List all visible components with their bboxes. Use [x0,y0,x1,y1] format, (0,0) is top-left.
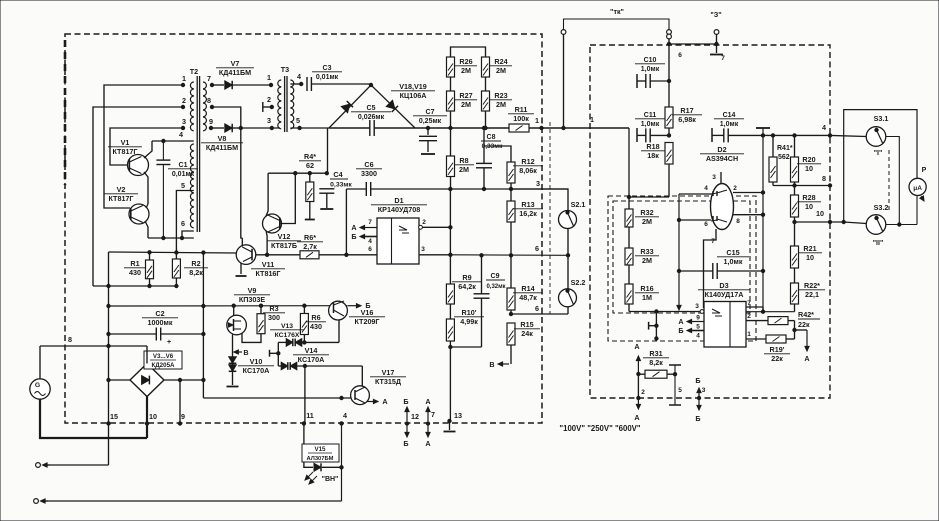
label C4 [330,170,352,189]
capacitor C5 [370,120,374,136]
terminal V arrow lower [489,360,509,369]
label R20 [797,155,821,173]
svg-text:R21: R21 [803,244,816,253]
label C1 [168,162,198,178]
dot T3 pin3 [270,126,273,129]
switch S2.1 [559,211,577,229]
wire y197 [629,196,669,198]
dot node1 left [540,126,543,129]
resistor R18 [665,143,673,198]
svg-text:6: 6 [535,244,539,253]
dot V12 emitter junction [265,253,268,256]
wire T3 pin4 [290,83,301,85]
resistor R2 [172,259,180,286]
svg-text:430: 430 [310,322,322,331]
label S2.1 [571,200,586,209]
svg-text:9: 9 [696,315,700,322]
dot V8 line crossing [239,126,242,129]
svg-text:R2: R2 [191,259,200,268]
svg-text:4: 4 [297,72,301,81]
dot R14 bottom [509,312,512,315]
terminal input lower [34,499,342,504]
right dashed enclosure box [590,45,830,398]
dot T2 pin9 [209,126,212,129]
svg-text:3: 3 [712,174,716,181]
transformer T3 [278,65,294,132]
dot stub [277,352,280,355]
wire T2 pin5 [176,191,193,260]
dot T3 pin5 [298,126,301,129]
bridge rectifier V3-V6 KD205A [130,364,164,397]
svg-text:48,7к: 48,7к [519,293,537,302]
svg-text:0,32мк: 0,32мк [486,284,505,290]
label R27 [455,91,477,109]
wire V12 base [280,173,295,223]
resistor R20 [791,134,799,186]
label C3 [312,65,342,81]
capacitor C11 [637,128,669,142]
node7 A arrows [425,397,430,448]
dot S2 mid [566,254,569,257]
svg-text:μА: μА [913,185,922,192]
svg-text:10: 10 [149,412,157,421]
dot V14 node [303,364,306,367]
svg-text:AS394СН: AS394СН [706,154,738,163]
G bottom loop [40,399,147,438]
dot R2 bottom [175,284,178,287]
svg-text:3: 3 [182,117,186,126]
svg-text:КС176Х: КС176Х [275,332,300,339]
node8 row [773,174,832,187]
D3 pin 5 input A [678,317,704,331]
svg-text:7: 7 [721,55,725,62]
svg-text:R16: R16 [640,284,653,293]
wire V12 emitter [266,231,267,255]
node 1 labels [535,115,594,125]
svg-text:4,99к: 4,99к [460,317,478,326]
label V15 box [302,444,339,462]
svg-text:10: 10 [806,253,814,262]
svg-text:КТ817Б: КТ817Б [271,241,297,250]
svg-text:D2: D2 [717,145,726,154]
svg-text:R17: R17 [680,106,693,115]
contact bar stub D3 [649,322,657,330]
dot C8 branch [482,126,485,129]
svg-text:6: 6 [535,304,539,313]
svg-text:5: 5 [181,181,185,190]
resistor R1 [146,252,154,286]
D2 pin8 wire [733,215,763,225]
label R8 [454,156,474,174]
D3 pin2 output [746,313,768,321]
dot T2 pin2 [181,105,184,108]
resistor R21 [791,222,799,283]
resistor R17 [665,107,673,135]
wire pin7 row [746,311,795,313]
svg-text:Б: Б [678,326,683,335]
svg-text:7: 7 [431,410,435,419]
terminal A arrow down right [804,330,809,363]
label C7 [413,109,447,125]
T3 pin labels [267,72,301,125]
dot R17 R18 C11 [667,134,670,137]
terminal tk bracket [564,7,670,35]
svg-text:АЛ307БМ: АЛ307БМ [307,456,334,462]
wire top connector R26 R24 [451,47,486,57]
svg-text:15: 15 [110,412,118,421]
svg-text:R18: R18 [646,142,659,151]
svg-text:C3: C3 [323,65,332,72]
svg-text:V13: V13 [281,323,293,330]
dot C1 top [162,139,165,142]
node 2 arrow down [634,374,645,422]
svg-text:3: 3 [267,116,271,125]
node 6 label upper [535,244,539,253]
svg-text:КС170А: КС170А [298,355,325,364]
label S2.2 [571,278,586,287]
svg-text:13: 13 [454,411,462,420]
dot node3 [509,187,512,190]
svg-text:"ВН": "ВН" [322,476,339,483]
svg-text:6: 6 [181,219,185,228]
svg-text:Т2: Т2 [190,67,198,76]
dot V17base-node4 [340,396,343,399]
svg-text:R15: R15 [520,320,533,329]
svg-text:R1: R1 [130,259,139,268]
bridge bottom lead [146,397,148,439]
svg-text:4: 4 [179,130,183,139]
wire base row y255 [256,254,300,256]
svg-text:8: 8 [736,218,740,225]
wire V17 base line [203,397,351,399]
svg-text:3: 3 [421,246,425,253]
svg-text:R3: R3 [269,304,278,313]
D1 pin 7 input A [351,219,377,232]
svg-text:1000мк: 1000мк [148,318,173,327]
svg-text:R26: R26 [459,57,472,66]
resistor R11 [509,124,529,132]
transistor V16 KT209 [329,301,348,320]
svg-text:5: 5 [296,116,300,125]
label R10 [454,308,484,326]
dot T2 pin8 [210,105,213,108]
label D2 [700,145,744,163]
svg-text:1,0мк: 1,0мк [724,257,743,266]
dot C9 top [480,254,483,257]
svg-text:12: 12 [411,412,419,421]
dot V13-R6b [303,341,306,344]
wire node4 to S3.1 [830,135,867,136]
wire R10 C9 bottom [450,346,481,348]
svg-text:2М: 2М [459,165,469,174]
resistor R6* [300,251,377,259]
svg-text:0,01мк: 0,01мк [172,171,195,178]
node labels bottom row [110,410,462,421]
svg-text:64,2к: 64,2к [458,282,476,291]
dot T2 pin7 [210,83,213,86]
svg-text:10: 10 [816,209,824,218]
resistor R26 [447,57,455,77]
svg-text:1: 1 [590,115,594,124]
svg-text:C1: C1 [179,162,188,169]
label R11 [508,105,534,123]
dot rail-R3 [259,304,262,307]
label C11 [635,112,665,128]
svg-text:+: + [167,339,171,346]
label V8 [201,134,243,152]
capacitor C2 [109,328,204,347]
wire right column x763 [761,129,764,314]
wire S3.2 out to meter [886,224,917,226]
row R1 R2 bottoms y286 [93,285,177,287]
label D3 [698,281,750,299]
svg-text:2: 2 [733,185,737,192]
label C15 [717,248,749,266]
svg-text:Б: Б [403,397,408,406]
D1 pin 4 input B [351,232,377,245]
dot T3 pin1 [269,83,272,86]
label V9 [234,286,270,304]
svg-text:0,33мк: 0,33мк [482,143,503,150]
label V11 [251,260,285,278]
label R9 [452,273,482,291]
svg-text:S2.2: S2.2 [571,278,586,287]
svg-text:8,06к: 8,06к [519,166,537,175]
svg-text:R13: R13 [521,200,534,209]
wire V2 collector [146,204,148,208]
svg-text:Б: Б [403,439,408,448]
svg-text:1: 1 [182,74,186,83]
svg-text:R27: R27 [459,91,472,100]
wire V11 emitter gnd [236,263,247,277]
wire node6 lower [511,313,568,315]
meter uA P [909,167,927,225]
dot rail-V9 [232,304,235,307]
dot R1 top [148,251,151,254]
svg-text:7: 7 [711,238,715,245]
label V12 [267,232,301,250]
resistor R13 [507,189,515,255]
svg-text:9: 9 [181,412,185,421]
transistor V2 KT817G [129,204,149,224]
label C8 [481,134,503,150]
wire V1 collector [144,141,152,158]
dot C2 left [107,332,110,335]
label R18 [641,142,665,160]
resistor R8 [447,128,455,189]
wire node11 drop [304,366,306,424]
svg-text:62: 62 [306,161,314,170]
svg-text:D3: D3 [719,281,728,290]
svg-text:V3...V6: V3...V6 [153,353,174,360]
svg-text:C5: C5 [367,105,376,112]
resistor R10 [446,319,454,421]
diode V18 [341,101,353,113]
transistor V1 KT817G [128,155,149,176]
terminal tk left circle [561,30,566,35]
wire S3.2 in [842,220,866,223]
svg-text:"тк": "тк" [610,7,624,16]
resistor R15 [507,323,515,364]
label R4 [299,152,321,170]
svg-text:22,1: 22,1 [805,290,819,299]
label V17 [370,368,406,386]
capacitor C6 [366,182,450,196]
label R26 [455,57,477,75]
svg-text:В: В [489,360,494,369]
label V18 V19 [391,82,435,100]
label R13 [513,200,543,218]
terminal input upper [36,463,109,468]
label R12 [513,157,543,175]
wire S3 loop top [844,110,917,222]
wire D1 pin2 to column [422,226,452,229]
svg-text:2: 2 [422,219,426,226]
dot pin6 line [345,253,348,256]
wire column x450 [449,189,451,255]
svg-text:100к: 100к [513,114,529,123]
capacitor C1 [156,141,170,238]
svg-text:C14: C14 [723,112,736,119]
svg-text:2М: 2М [642,256,652,265]
wire T2 pin6 elbow [182,231,194,238]
switch S2.2 [559,289,577,307]
svg-text:R20: R20 [802,155,815,164]
dot C2 right [202,332,205,335]
label R16 [635,284,659,302]
svg-text:G: G [35,382,40,389]
switch S3.2 [866,215,886,235]
svg-text:C4: C4 [333,170,342,179]
wire V8 to T3 pin3 [241,127,280,129]
svg-text:R32: R32 [640,208,653,217]
D1 pin3 wire [419,246,450,255]
svg-text:КТ817Г: КТ817Г [108,194,133,203]
label R24 [490,57,512,75]
terminal Z [710,10,721,44]
D3 pin9 label [696,315,700,322]
dot junction C1 bottom [162,236,165,239]
ground Z [678,44,725,62]
dot R27 bottom [449,126,452,129]
label V16 [349,308,385,326]
wire C8 R12 branch [484,128,511,162]
dot triangle apex [369,83,372,86]
label R28 [797,193,821,211]
dot R31 left [637,372,640,375]
wire collector rail y173 [268,172,327,174]
svg-text:9: 9 [209,117,213,126]
lower signal line y189 [450,188,568,190]
node10 row [793,209,844,224]
svg-text:2М: 2М [496,66,506,75]
svg-text:К140УД17А: К140УД17А [705,290,744,299]
led V15 branch [304,424,343,471]
wire V11 base top [241,238,243,246]
svg-text:R8: R8 [459,156,468,165]
dot R2 top [175,251,178,254]
svg-text:КТ315Д: КТ315Д [375,377,401,386]
svg-text:6: 6 [368,246,372,253]
left box heavy edge artifact [64,40,67,185]
svg-text:R42*: R42* [798,310,814,319]
resistor R12 [507,162,515,189]
label V7 [216,59,254,77]
svg-text:2: 2 [182,96,186,105]
svg-text:Б: Б [365,301,370,310]
svg-text:КЦ106А: КЦ106А [400,91,427,100]
wire T2 pin8 to V11 base [212,107,242,238]
dot output-column [449,253,452,256]
svg-text:V10: V10 [250,357,263,366]
wire feedback top y189 [346,188,365,190]
fet V9 KP303E [227,306,247,335]
R31 right bars [669,365,682,405]
wire V1 emitter to V2 collector [144,172,148,204]
label V1 [108,138,142,156]
dot R10-C9 [449,345,452,348]
dot C8 bottom [482,187,485,190]
thermal coupling inner dashed box [613,201,750,313]
svg-text:2,7к: 2,7к [303,242,317,251]
wire V17 collector [361,366,363,387]
D2 pin2 wire [733,185,763,193]
svg-text:0,01мк: 0,01мк [316,74,339,81]
resistor R14 [507,255,515,314]
svg-text:V18,V19: V18,V19 [399,82,427,91]
wire T3 pin5 [290,127,329,129]
svg-text:КТ816Г: КТ816Г [255,269,280,278]
contact bar stub [270,350,279,357]
node 3 B arrows [695,376,705,423]
wire bridge right [164,379,203,381]
D3 pin3 circle [695,303,704,313]
wire V16 collector [338,320,340,343]
svg-text:1,0мк: 1,0мк [641,66,660,73]
label V13 [270,323,304,339]
svg-text:4: 4 [704,185,708,192]
svg-text:1: 1 [267,73,271,82]
svg-text:C9: C9 [491,273,500,280]
wire pin4 row [152,140,194,142]
svg-text:R6: R6 [311,313,320,322]
D2 pin4 wire [679,185,711,194]
dot x629 y197 [627,195,630,198]
svg-text:Б: Б [351,232,356,241]
svg-text:Т3: Т3 [281,65,289,74]
svg-text:2: 2 [747,313,751,320]
capacitor C10 [637,74,671,88]
dot rail-x107 [107,304,110,307]
left dashed enclosure box [65,34,542,423]
rectifier V18 V19 KTs106A triangle [329,85,415,128]
dot rail-R4 [308,172,311,175]
svg-text:R12: R12 [521,157,534,166]
D3 pin 4 input B [678,326,704,340]
label R1 [124,259,146,277]
svg-text:А: А [678,317,683,326]
resistor R16 [625,284,633,312]
svg-text:C6: C6 [364,160,373,169]
svg-text:КР140УД708: КР140УД708 [378,205,420,214]
label R6b [306,313,326,331]
svg-text:16,2к: 16,2к [519,209,537,218]
svg-text:S3.2: S3.2 [874,203,889,212]
wire LED column [341,424,343,501]
svg-text:V1: V1 [121,138,130,147]
supply rail y306 [109,305,348,307]
svg-text:V9: V9 [248,286,257,295]
